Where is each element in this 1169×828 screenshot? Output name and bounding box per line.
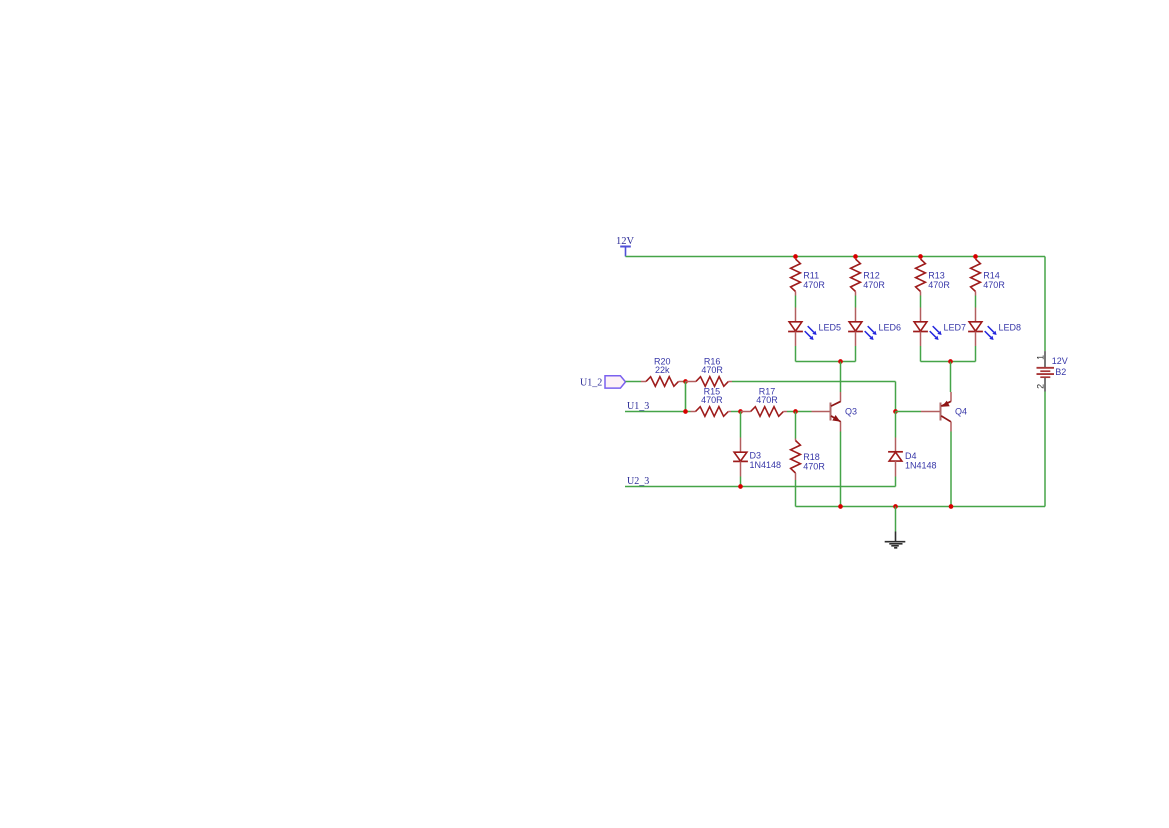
resistor R13 bbox=[916, 259, 926, 296]
wire R20 to node bbox=[683, 381, 686, 383]
svg-text:1: 1 bbox=[1036, 355, 1046, 360]
wire D4 to U2_3 bbox=[895, 477, 897, 487]
svg-text:Q3: Q3 bbox=[845, 407, 857, 417]
svg-text:2: 2 bbox=[1036, 384, 1046, 389]
LED LED7 label bbox=[944, 323, 967, 333]
svg-text:1N4148: 1N4148 bbox=[905, 460, 937, 470]
diode D4 label bbox=[905, 451, 937, 470]
diode D3 label bbox=[750, 451, 782, 470]
wire Q4 collector to rail bbox=[950, 432, 952, 507]
junction R17/R18/Q3-base node bbox=[793, 409, 798, 414]
resistor R11 bbox=[791, 259, 801, 296]
battery B2 bbox=[1037, 351, 1055, 391]
svg-text:470R: 470R bbox=[756, 395, 778, 405]
resistor R15 bbox=[691, 407, 732, 417]
resistor R18 bbox=[791, 439, 801, 481]
transistor Q3 label bbox=[845, 407, 857, 417]
connector flag U1_2 bbox=[605, 376, 626, 388]
svg-text:LED5: LED5 bbox=[819, 323, 842, 333]
wire R14 to LED8 bbox=[975, 296, 977, 308]
wire Q4 base bbox=[896, 411, 922, 413]
resistor R13 label bbox=[928, 271, 950, 290]
svg-text:B2: B2 bbox=[1055, 367, 1066, 377]
svg-text:470R: 470R bbox=[701, 395, 723, 405]
net label U1_3 bbox=[627, 401, 649, 412]
resistor R20 label bbox=[654, 357, 671, 376]
wire U1_2 to R20 bbox=[626, 381, 642, 383]
junction Q4 collector/rail bbox=[949, 504, 954, 509]
junction top rail R13 bbox=[918, 254, 923, 259]
junction D3/U2_3 node bbox=[738, 484, 743, 489]
junction U1_3/R20 node bbox=[683, 409, 688, 414]
svg-text:Q4: Q4 bbox=[955, 407, 967, 417]
wire R18 to bottom rail bbox=[795, 480, 797, 507]
wire LED8 cathode down bbox=[975, 346, 977, 362]
wire node to D4 bbox=[895, 412, 897, 438]
wire U2_3 bbox=[625, 486, 896, 488]
net label U2_3 bbox=[627, 476, 649, 487]
transistor Q4 bbox=[921, 392, 951, 432]
svg-text:22k: 22k bbox=[655, 365, 670, 375]
wire U1_3 bbox=[625, 411, 691, 413]
wire node to D3 bbox=[740, 412, 742, 438]
power supply 12V symbol bbox=[620, 247, 631, 257]
battery B2 value label 12V bbox=[1052, 356, 1068, 366]
wire LED6 cathode down bbox=[855, 346, 857, 362]
wire D3 to U2_3 bbox=[740, 477, 742, 487]
svg-text:12V: 12V bbox=[616, 236, 635, 247]
junction ground/rail bbox=[893, 504, 898, 509]
wire R15 to D3 node bbox=[731, 411, 741, 413]
svg-text:1N4148: 1N4148 bbox=[750, 460, 782, 470]
svg-text:U1_3: U1_3 bbox=[627, 401, 649, 412]
diode D4 bbox=[888, 438, 903, 477]
wire LED join to Q3 collector bbox=[840, 362, 842, 393]
svg-text:LED6: LED6 bbox=[879, 323, 902, 333]
LED LED6 label bbox=[879, 323, 902, 333]
LED LED6 bbox=[848, 308, 877, 347]
wire Q3 base node to R18 bbox=[795, 412, 797, 439]
resistor R12 bbox=[851, 259, 861, 296]
wire R17 to Q3 base node bbox=[787, 411, 812, 413]
svg-text:470R: 470R bbox=[983, 280, 1005, 290]
transistor Q3 bbox=[812, 392, 841, 432]
resistor R14 bbox=[971, 259, 981, 296]
transistor Q4 label bbox=[955, 407, 967, 417]
svg-text:470R: 470R bbox=[701, 365, 723, 375]
svg-text:470R: 470R bbox=[863, 280, 885, 290]
LED LED7 bbox=[913, 308, 942, 347]
resistor R17 bbox=[741, 407, 788, 417]
junction LED7/8 node bbox=[948, 359, 953, 364]
wire 12V top rail bbox=[626, 256, 1046, 258]
wire bottom rail bbox=[796, 506, 1046, 508]
svg-text:U1_2: U1_2 bbox=[580, 378, 602, 389]
net label U1_2 bbox=[580, 378, 602, 389]
ground bbox=[885, 532, 906, 548]
wire battery top bbox=[1044, 257, 1046, 352]
resistor R14 label bbox=[983, 271, 1005, 290]
wire LED5 cathode down bbox=[795, 346, 797, 362]
svg-text:470R: 470R bbox=[803, 461, 825, 471]
resistor R17 label bbox=[756, 387, 778, 406]
svg-text:12V: 12V bbox=[1052, 356, 1068, 366]
resistor R12 label bbox=[863, 271, 885, 290]
svg-text:LED7: LED7 bbox=[944, 323, 967, 333]
wire R16 to Q4 base column bbox=[732, 382, 896, 412]
wire LED join to Q4 emitter bbox=[950, 362, 952, 393]
junction Q3 emitter/rail bbox=[838, 504, 843, 509]
LED LED5 bbox=[788, 308, 817, 347]
wire rail to ground bbox=[895, 507, 897, 532]
junction R15/R17/D3 node bbox=[738, 409, 743, 414]
wire LED7-LED8 join bbox=[921, 361, 976, 363]
diode D3 bbox=[733, 438, 748, 477]
svg-text:LED8: LED8 bbox=[999, 323, 1022, 333]
resistor R20 bbox=[641, 377, 683, 387]
svg-text:U2_3: U2_3 bbox=[627, 476, 649, 487]
LED LED5 label bbox=[819, 323, 842, 333]
junction top rail R11 bbox=[793, 254, 798, 259]
LED LED8 bbox=[968, 308, 997, 347]
junction LED5/6 node bbox=[838, 359, 843, 364]
junction R16/Q4-base/D4 node bbox=[893, 409, 898, 414]
wire R12 to LED6 bbox=[855, 296, 857, 308]
junction top rail R14 bbox=[973, 254, 978, 259]
resistor R15 label bbox=[701, 387, 723, 406]
resistor R18 label bbox=[803, 452, 825, 471]
wire node down to U1_3 row bbox=[685, 382, 687, 412]
wire LED7 cathode down bbox=[920, 346, 922, 362]
resistor R16 label bbox=[701, 357, 723, 376]
wire R11 to LED5 bbox=[795, 296, 797, 308]
battery B2 pin 1 number bbox=[1036, 355, 1046, 360]
battery B2 pin 2 number bbox=[1036, 384, 1046, 389]
svg-text:470R: 470R bbox=[803, 280, 825, 290]
junction top rail R12 bbox=[853, 254, 858, 259]
svg-text:470R: 470R bbox=[928, 280, 950, 290]
LED LED8 label bbox=[999, 323, 1022, 333]
resistor R16 bbox=[686, 377, 733, 387]
wire R13 to LED7 bbox=[920, 296, 922, 308]
wire Q3 emitter to rail bbox=[840, 432, 842, 507]
wire battery bottom bbox=[1044, 392, 1046, 507]
resistor R11 label bbox=[803, 271, 825, 290]
wire LED5-LED6 join bbox=[796, 361, 856, 363]
battery B2 name label bbox=[1055, 367, 1066, 377]
junction R20/R16 node bbox=[683, 379, 688, 384]
power supply 12V label bbox=[616, 236, 635, 247]
